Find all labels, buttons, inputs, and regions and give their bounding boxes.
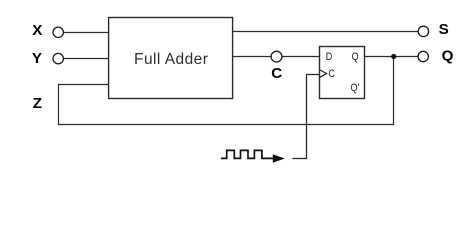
wire Z horizontal into adder: [58, 84, 109, 86]
flip-flop U2: [320, 47, 365, 99]
wire S output: [232, 31, 418, 33]
wire clock vertical: [306, 74, 308, 159]
pin clock wedge: [320, 70, 327, 77]
terminal S: [418, 26, 428, 36]
svg-text:C: C: [271, 65, 282, 82]
svg-text:S: S: [439, 21, 449, 38]
wire feedback bottom: [58, 124, 394, 126]
wire feedback vertical: [393, 56, 395, 125]
wire clock horizontal at bottom: [293, 158, 307, 160]
wire X input: [64, 32, 110, 34]
clock waveform: [221, 150, 274, 158]
svg-text:Full Adder: Full Adder: [134, 51, 208, 68]
svg-text:Z: Z: [33, 95, 42, 112]
svg-text:Q: Q: [352, 51, 359, 63]
terminal X: [53, 27, 63, 37]
wire Z vertical: [58, 84, 60, 125]
terminal Q: [418, 51, 428, 61]
wire C carry to flip-flop D: [232, 56, 320, 58]
full adder U1: [109, 18, 233, 99]
svg-text:X: X: [32, 22, 42, 39]
wire clock into wedge: [307, 74, 321, 76]
svg-text:Q: Q: [442, 47, 454, 64]
node C: [271, 51, 282, 62]
svg-text:D: D: [326, 51, 333, 63]
svg-text:C: C: [328, 68, 335, 80]
clock arrowhead: [273, 154, 285, 162]
wire Y input: [64, 58, 110, 60]
svg-text:Q': Q': [351, 82, 360, 94]
svg-text:Y: Y: [32, 50, 42, 67]
terminal Y: [53, 53, 63, 63]
junction node: [391, 54, 396, 59]
wire Q output: [364, 56, 418, 58]
